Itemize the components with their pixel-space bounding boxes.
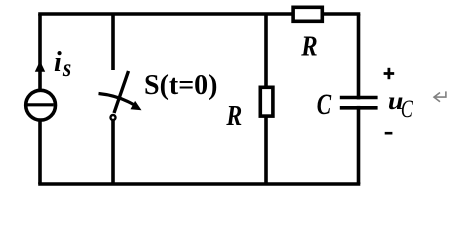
current source arrow <box>35 61 45 72</box>
svg-text:i: i <box>54 47 62 78</box>
switch closing arrow <box>99 94 142 111</box>
wire switch branch upper stub <box>111 14 115 70</box>
resistor R1 horizontal body <box>293 7 322 21</box>
wire switch branch lower <box>111 120 115 184</box>
current source Is <box>26 90 56 120</box>
svg-text:S(t=0): S(t=0) <box>144 70 218 101</box>
label i_s <box>54 47 71 83</box>
paragraph return mark <box>434 91 446 101</box>
svg-text:C: C <box>401 95 413 123</box>
svg-text:s: s <box>62 55 71 83</box>
wire middle resistor branch <box>264 14 268 184</box>
plus sign <box>384 68 395 79</box>
svg-text:R: R <box>300 30 317 62</box>
wire right <box>357 14 361 184</box>
switch S pivot contact <box>111 115 116 120</box>
switch S blade <box>114 71 129 113</box>
resistor R2 vertical body <box>260 87 273 116</box>
wire left <box>38 14 42 184</box>
wire top <box>40 12 359 16</box>
svg-text:R: R <box>226 99 243 132</box>
svg-text:C: C <box>317 88 332 121</box>
label u_C <box>388 87 413 123</box>
minus sign <box>385 132 393 135</box>
wire bottom <box>40 182 359 186</box>
capacitor C <box>340 98 378 108</box>
